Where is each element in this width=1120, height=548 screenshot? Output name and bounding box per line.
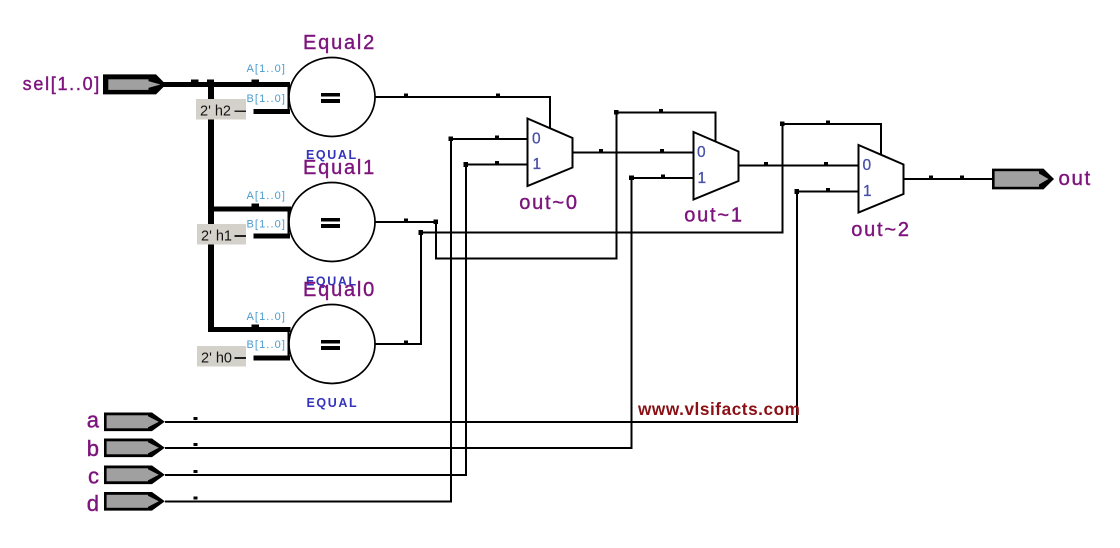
wire input a to mux out~2 input 1 [165, 192, 859, 422]
svg-text:B[1..0]: B[1..0] [247, 93, 287, 105]
svg-text:B[1..0]: B[1..0] [247, 219, 287, 231]
tick on sel bus [191, 79, 199, 82]
svg-text:out~1: out~1 [684, 205, 744, 227]
junction dot c corner [464, 162, 469, 167]
svg-text:c: c [88, 464, 99, 489]
tick on a wire [194, 417, 198, 420]
input pin a [104, 413, 165, 432]
wire B const to Equal2 [254, 109, 291, 114]
svg-text:EQUAL: EQUAL [307, 396, 359, 410]
tick [495, 161, 499, 164]
tick [826, 188, 830, 191]
tick on Equal0 A wire [252, 324, 260, 327]
junction dot a corner [795, 189, 800, 194]
svg-text:Equal2: Equal2 [303, 32, 376, 54]
constant 2'h1 [197, 224, 246, 245]
svg-text:A[1..0]: A[1..0] [247, 190, 287, 202]
input pin b [104, 439, 165, 458]
input pin sel[1..0] [103, 74, 166, 94]
mux out~2 [859, 145, 904, 213]
svg-text:A[1..0]: A[1..0] [247, 63, 287, 75]
svg-text:2' h2: 2' h2 [200, 104, 231, 120]
wire Equal0 out to mux out~2 select [375, 124, 881, 344]
wire B const to Equal0 [254, 356, 291, 361]
equals sign Equal1 [321, 218, 340, 222]
input pin d [104, 492, 165, 511]
bus wire sel [160, 82, 290, 87]
svg-text:A[1..0]: A[1..0] [247, 311, 287, 323]
mux out~0 [528, 119, 573, 187]
bus riser (sel to Equal1/Equal0) [208, 82, 214, 332]
svg-text:a: a [87, 408, 100, 433]
wire Equal2 out to mux out~0 select [375, 97, 550, 129]
junction dot [419, 230, 424, 235]
svg-text:2' h1: 2' h1 [201, 229, 232, 245]
junction sel bus / riser [207, 79, 214, 82]
tick [659, 109, 663, 112]
tick [404, 219, 408, 222]
svg-text:B[1..0]: B[1..0] [247, 339, 287, 351]
wire mux out~0 to mux out~1 input 0 [573, 152, 694, 154]
svg-text:out~2: out~2 [851, 219, 911, 241]
wire input b to mux out~1 input 1 [165, 178, 694, 448]
wire B const to Equal1 [254, 234, 291, 239]
svg-text:0: 0 [532, 131, 541, 148]
comparator Equal2 [289, 58, 375, 137]
tick [404, 341, 408, 344]
svg-text:0: 0 [863, 157, 872, 174]
junction dot b corner [629, 176, 634, 181]
svg-text:2' h0: 2' h0 [201, 351, 232, 367]
equals sign Equal2 [321, 93, 340, 97]
input pin c [104, 466, 165, 485]
tick [929, 176, 933, 179]
wire A bus to Equal0 [208, 327, 291, 332]
output pin out [992, 169, 1054, 190]
comparator Equal0 [289, 305, 375, 384]
tick on c wire [194, 470, 198, 473]
junction dot [434, 220, 439, 225]
tick [826, 121, 830, 124]
junction dot [780, 122, 785, 127]
tick on d wire [194, 496, 198, 499]
svg-text:1: 1 [698, 170, 707, 187]
svg-text:www.vlsifacts.com: www.vlsifacts.com [637, 399, 801, 419]
svg-text:Equal1: Equal1 [303, 157, 376, 179]
equals sign Equal0 [321, 340, 340, 344]
wire input c to mux out~0 input 1 [165, 165, 528, 475]
constant 2'h2 [196, 99, 246, 120]
tick on Equal1 A wire [252, 204, 260, 207]
junction dot d corner [449, 137, 454, 142]
tick [404, 94, 408, 97]
svg-text:0: 0 [697, 144, 706, 161]
svg-text:Equal0: Equal0 [303, 279, 376, 301]
pin stub Equal0 [288, 332, 290, 358]
wire mux out~2 to output pin [904, 178, 994, 180]
svg-text:1: 1 [863, 183, 872, 200]
tick [824, 162, 828, 165]
wire mux out~1 to mux out~2 input 0 [739, 165, 859, 167]
tick [495, 136, 499, 139]
comparator Equal1 [289, 183, 375, 262]
pin stub Equal2 [288, 85, 290, 111]
wire A bus to Equal1 [210, 206, 291, 211]
svg-text:d: d [87, 491, 99, 516]
constant 2'h0 [197, 346, 246, 367]
tick [960, 176, 964, 179]
mux out~1 [694, 132, 739, 200]
tick on b wire [194, 443, 198, 446]
svg-text:sel[1..0]: sel[1..0] [23, 74, 101, 94]
svg-text:b: b [87, 436, 99, 461]
junction dot [614, 110, 619, 115]
tick [661, 175, 665, 178]
tick [496, 94, 500, 97]
svg-text:out~0: out~0 [519, 192, 579, 214]
tick [764, 162, 768, 165]
wire input d to mux out~0 input 0 [165, 139, 528, 501]
tick [599, 149, 603, 152]
tick [660, 149, 664, 152]
tick on sel bus near Equal2 [252, 79, 260, 82]
pin stub Equal1 [288, 210, 290, 236]
wire Equal1 out to mux out~1 select [375, 113, 716, 259]
svg-text:out: out [1059, 167, 1092, 190]
svg-text:1: 1 [533, 156, 542, 173]
